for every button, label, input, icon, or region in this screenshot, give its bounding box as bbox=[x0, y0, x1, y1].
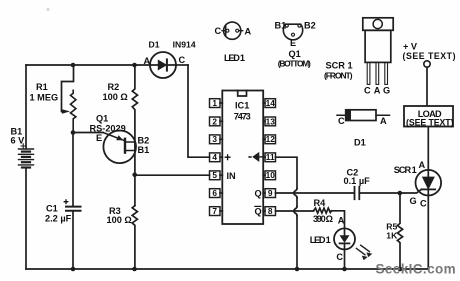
svg-text:390 Ω: 390 Ω bbox=[313, 214, 333, 224]
reference D1 leads bbox=[337, 114, 390, 116]
pin 12 box bbox=[265, 135, 276, 144]
svg-text:C1: C1 bbox=[46, 203, 58, 213]
svg-text:(FRONT): (FRONT) bbox=[324, 71, 353, 81]
svg-text:0.1 µF: 0.1 µF bbox=[344, 176, 371, 186]
svg-text:A: A bbox=[419, 160, 426, 170]
svg-text:1 MEG: 1 MEG bbox=[30, 93, 59, 103]
wire R4 to LED1 anode bbox=[332, 211, 345, 229]
wire pin 11 to ground column bbox=[276, 157, 298, 188]
svg-text:12: 12 bbox=[266, 134, 276, 144]
svg-text:(SEE TEXT): (SEE TEXT) bbox=[403, 51, 456, 61]
svg-text:1: 1 bbox=[212, 98, 217, 108]
wire left rail (battery column) bbox=[25, 65, 27, 149]
node junction top of R1 bbox=[71, 63, 76, 68]
wiper arrow of R1 bbox=[62, 109, 70, 114]
node junction B1 / IN wire bbox=[132, 173, 137, 178]
transistor Q1 B1 lead bbox=[125, 150, 135, 152]
svg-text:A: A bbox=[144, 56, 151, 66]
reference Q1 bottom view outline bbox=[283, 24, 302, 40]
svg-text:6: 6 bbox=[212, 188, 217, 198]
label plus pin4 bbox=[225, 154, 231, 160]
wire C2 to SCR gate bbox=[359, 189, 421, 193]
svg-text:C: C bbox=[364, 86, 371, 96]
wire left rail below battery bbox=[25, 168, 27, 269]
svg-text:(BOTTOM): (BOTTOM) bbox=[278, 59, 311, 69]
wire IN from B1 junction to pin 5 bbox=[135, 174, 210, 176]
capacitor C1 plates bbox=[66, 206, 81, 208]
resistor R1 (pot body) bbox=[71, 90, 76, 132]
pin 9 box bbox=[265, 189, 276, 198]
svg-text:E: E bbox=[96, 133, 102, 143]
svg-text:A: A bbox=[245, 27, 252, 37]
svg-text:100 Ω: 100 Ω bbox=[107, 215, 132, 225]
svg-text:(SEE TEXT): (SEE TEXT) bbox=[406, 118, 454, 128]
svg-text:8: 8 bbox=[268, 206, 273, 216]
svg-text:Q: Q bbox=[255, 189, 262, 199]
wire +V to LOAD bbox=[426, 67, 428, 106]
pin 14 box bbox=[265, 99, 276, 108]
svg-text:G: G bbox=[383, 86, 390, 96]
svg-text:R1: R1 bbox=[36, 82, 48, 92]
node LED1 ground junction bbox=[342, 267, 347, 272]
pin 5 box bbox=[210, 171, 221, 180]
diode D1 circle bbox=[150, 52, 176, 78]
wire emitter horizontal bbox=[73, 132, 103, 134]
diode D1 symbol bbox=[150, 64, 176, 66]
svg-text:14: 14 bbox=[266, 98, 276, 108]
svg-text:IN914: IN914 bbox=[173, 40, 196, 50]
resistor R5 bbox=[397, 193, 402, 269]
svg-text:3: 3 bbox=[212, 134, 217, 144]
LED1 circle bbox=[334, 228, 355, 249]
wire C1 top lead bbox=[72, 133, 74, 207]
node C1 ground junction bbox=[71, 267, 76, 272]
wire C1 bottom lead bbox=[72, 211, 74, 269]
svg-text:7473: 7473 bbox=[234, 112, 251, 122]
svg-text:+ V: + V bbox=[403, 42, 418, 52]
wire ground column to bottom rail bbox=[296, 216, 298, 270]
wire LED1 cathode to ground bbox=[344, 249, 346, 269]
wire SCR cathode to ground bbox=[427, 196, 429, 270]
wire pin 9 (Q) to C2 bbox=[276, 192, 355, 194]
svg-text:B2: B2 bbox=[304, 21, 316, 31]
svg-text:13: 13 bbox=[266, 116, 276, 126]
node gate/R5 junction bbox=[398, 191, 403, 196]
svg-text:4: 4 bbox=[212, 152, 217, 162]
wire LOAD to SCR anode bbox=[427, 127, 429, 171]
svg-text:Q: Q bbox=[255, 207, 262, 217]
svg-text:Q1: Q1 bbox=[96, 114, 108, 124]
wire pin 8 (Q-bar) to R4 bbox=[276, 210, 314, 212]
svg-text:6 V: 6 V bbox=[11, 136, 26, 146]
resistor R2 bbox=[132, 65, 137, 142]
svg-text:100 Ω: 100 Ω bbox=[103, 92, 128, 102]
pin 8 box bbox=[265, 207, 276, 216]
wire ground column hop over Q wire bbox=[294, 189, 297, 198]
wire top rail right of D1 bbox=[176, 64, 188, 66]
reference LED1 top view circle bbox=[224, 22, 241, 39]
svg-text:E: E bbox=[290, 38, 296, 48]
svg-text:IN: IN bbox=[227, 171, 237, 181]
svg-text:10: 10 bbox=[266, 170, 276, 180]
svg-text:R2: R2 bbox=[108, 82, 120, 92]
node junction top of R2 bbox=[132, 63, 137, 68]
svg-text:C: C bbox=[215, 26, 222, 36]
svg-text:11: 11 bbox=[266, 152, 275, 162]
svg-text:B1: B1 bbox=[138, 145, 150, 155]
pin 11 box bbox=[265, 153, 276, 162]
svg-text:A: A bbox=[380, 116, 387, 126]
label plus of C1 bbox=[64, 199, 69, 204]
svg-text:SCR 1: SCR 1 bbox=[394, 165, 417, 175]
LED1 symbol bbox=[344, 228, 346, 235]
pin 1 box bbox=[210, 99, 221, 108]
pin 13 box bbox=[265, 117, 276, 126]
pin numbers bbox=[212, 98, 275, 216]
node R3 ground junction bbox=[132, 267, 137, 272]
svg-text:1K: 1K bbox=[386, 230, 398, 240]
battery B1 bbox=[19, 144, 34, 168]
svg-text:LED 1: LED 1 bbox=[310, 235, 331, 245]
node R5 ground junction bbox=[398, 267, 403, 272]
wire B2/B1 column through junction bbox=[134, 142, 136, 206]
svg-text:D1: D1 bbox=[149, 40, 160, 50]
node junction R1 bottom / E wire bbox=[71, 130, 76, 135]
wire top rail left segment bbox=[26, 64, 150, 66]
svg-text:SCR 1: SCR 1 bbox=[326, 61, 353, 71]
transistor Q1 B2 lead bbox=[125, 141, 135, 143]
svg-text:C: C bbox=[179, 55, 186, 65]
svg-text:G: G bbox=[410, 196, 417, 206]
wire D1 cathode down to pin 4 bbox=[188, 65, 210, 157]
reference SCR1 front view tab bbox=[363, 18, 393, 31]
svg-text:2.2 µF: 2.2 µF bbox=[45, 214, 72, 224]
reference SCR1 front view body bbox=[365, 30, 391, 62]
svg-text:A: A bbox=[374, 86, 381, 96]
svg-text:C: C bbox=[420, 199, 427, 209]
svg-text:RS-2029: RS-2029 bbox=[90, 124, 126, 134]
svg-text:B2: B2 bbox=[138, 136, 150, 146]
transistor Q1 base bar bbox=[124, 139, 126, 153]
wire bottom ground rail bbox=[26, 268, 428, 270]
resistor R3 bbox=[132, 206, 137, 269]
SCR1 symbol bbox=[427, 170, 429, 177]
svg-text:2: 2 bbox=[212, 116, 217, 126]
clock marker at pin 11 bbox=[253, 153, 259, 162]
svg-text:R4: R4 bbox=[314, 198, 327, 208]
LED1 light arrows bbox=[356, 248, 365, 254]
reference D1 package body bbox=[346, 110, 376, 121]
node ground column junction bbox=[295, 267, 300, 272]
pin 6 box bbox=[210, 189, 221, 198]
capacitor C2 plates bbox=[354, 187, 356, 199]
pin 3 box bbox=[210, 135, 221, 144]
svg-text:A: A bbox=[338, 216, 345, 226]
svg-text:5: 5 bbox=[212, 170, 217, 180]
reference SCR1 legs bbox=[367, 62, 370, 84]
svg-text:SeekIC.com: SeekIC.com bbox=[376, 262, 457, 277]
SCR1 circle bbox=[416, 170, 442, 196]
wire ground column between hops bbox=[296, 198, 298, 207]
dust speck artifact bbox=[47, 8, 50, 11]
wire R1 wiper bracket bbox=[62, 65, 74, 112]
pin 7 box bbox=[210, 207, 221, 216]
LOAD box bbox=[404, 106, 453, 127]
transistor Q1 emitter diagonal bbox=[103, 133, 124, 141]
IC1 notch bbox=[238, 91, 247, 97]
svg-text:B1: B1 bbox=[275, 21, 287, 31]
IC1 7473 body bbox=[222, 91, 263, 225]
wire ground column hop over Q-bar wire bbox=[294, 207, 297, 216]
svg-text:IC1: IC1 bbox=[235, 101, 249, 111]
pin 2 box bbox=[210, 117, 221, 126]
svg-text:C: C bbox=[338, 116, 345, 126]
svg-text:7: 7 bbox=[212, 206, 217, 216]
pin 4 box bbox=[210, 153, 221, 162]
transistor Q1 circle bbox=[103, 131, 136, 164]
svg-text:D1: D1 bbox=[354, 138, 366, 148]
pin 10 box bbox=[265, 171, 276, 180]
svg-text:C: C bbox=[336, 252, 343, 262]
resistor R4 bbox=[314, 208, 332, 213]
svg-text:9: 9 bbox=[268, 188, 273, 198]
svg-text:Q1: Q1 bbox=[289, 49, 301, 59]
terminal +V bbox=[424, 61, 430, 67]
svg-text:LED 1: LED 1 bbox=[224, 53, 245, 63]
